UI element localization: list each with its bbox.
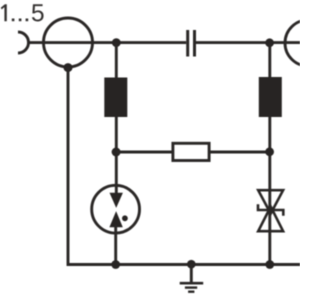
wire resistor right segment	[209, 151, 270, 154]
capacitor C1 plate left	[186, 30, 189, 57]
ground bar 2	[185, 286, 197, 288]
wire top left (arc to capacitor)	[29, 41, 187, 44]
TVS suppressor diode top triangle	[258, 190, 283, 213]
junction dot at left circle bottom	[64, 63, 73, 72]
wire left branch vertical upper	[115, 43, 118, 194]
coax socket circle right (cut by edge)	[285, 20, 320, 66]
junction dot top right branch	[265, 38, 274, 47]
resistor R1 (open box)	[173, 143, 209, 160]
junction dot top left branch	[112, 38, 121, 47]
wire left vertical + bottom wire	[68, 67, 300, 265]
gas discharge tube circle	[92, 185, 140, 233]
capacitor C1 plate right	[193, 30, 196, 57]
junction dot right mid	[265, 147, 274, 156]
GDT bottom electrode arrow (up)	[109, 211, 122, 227]
junction dot bottom right	[265, 260, 274, 269]
series impedance Z1 (filled box)	[104, 78, 127, 118]
coax socket circle left	[44, 18, 93, 67]
junction dot left mid	[112, 148, 121, 157]
ground bar 3	[188, 291, 194, 293]
junction dot ground	[187, 260, 196, 269]
label 1...5	[1, 4, 44, 21]
GDT gas indicator dot	[122, 215, 128, 221]
TVS suppressor diode bottom triangle	[258, 207, 283, 232]
wire right branch vertical	[268, 43, 271, 265]
wire resistor left segment	[116, 151, 172, 154]
wire GDT to bottom	[114, 225, 117, 265]
connector socket arc J1	[18, 32, 29, 53]
series impedance Z2 (filled box)	[259, 77, 282, 117]
junction dot bottom left	[111, 260, 120, 269]
ground bar 1	[180, 282, 204, 285]
GDT top electrode arrow (down)	[110, 193, 123, 208]
wire top right (capacitor to edge)	[196, 41, 300, 44]
ground stub	[190, 265, 193, 284]
TVS zener bar with hooks	[258, 204, 283, 216]
